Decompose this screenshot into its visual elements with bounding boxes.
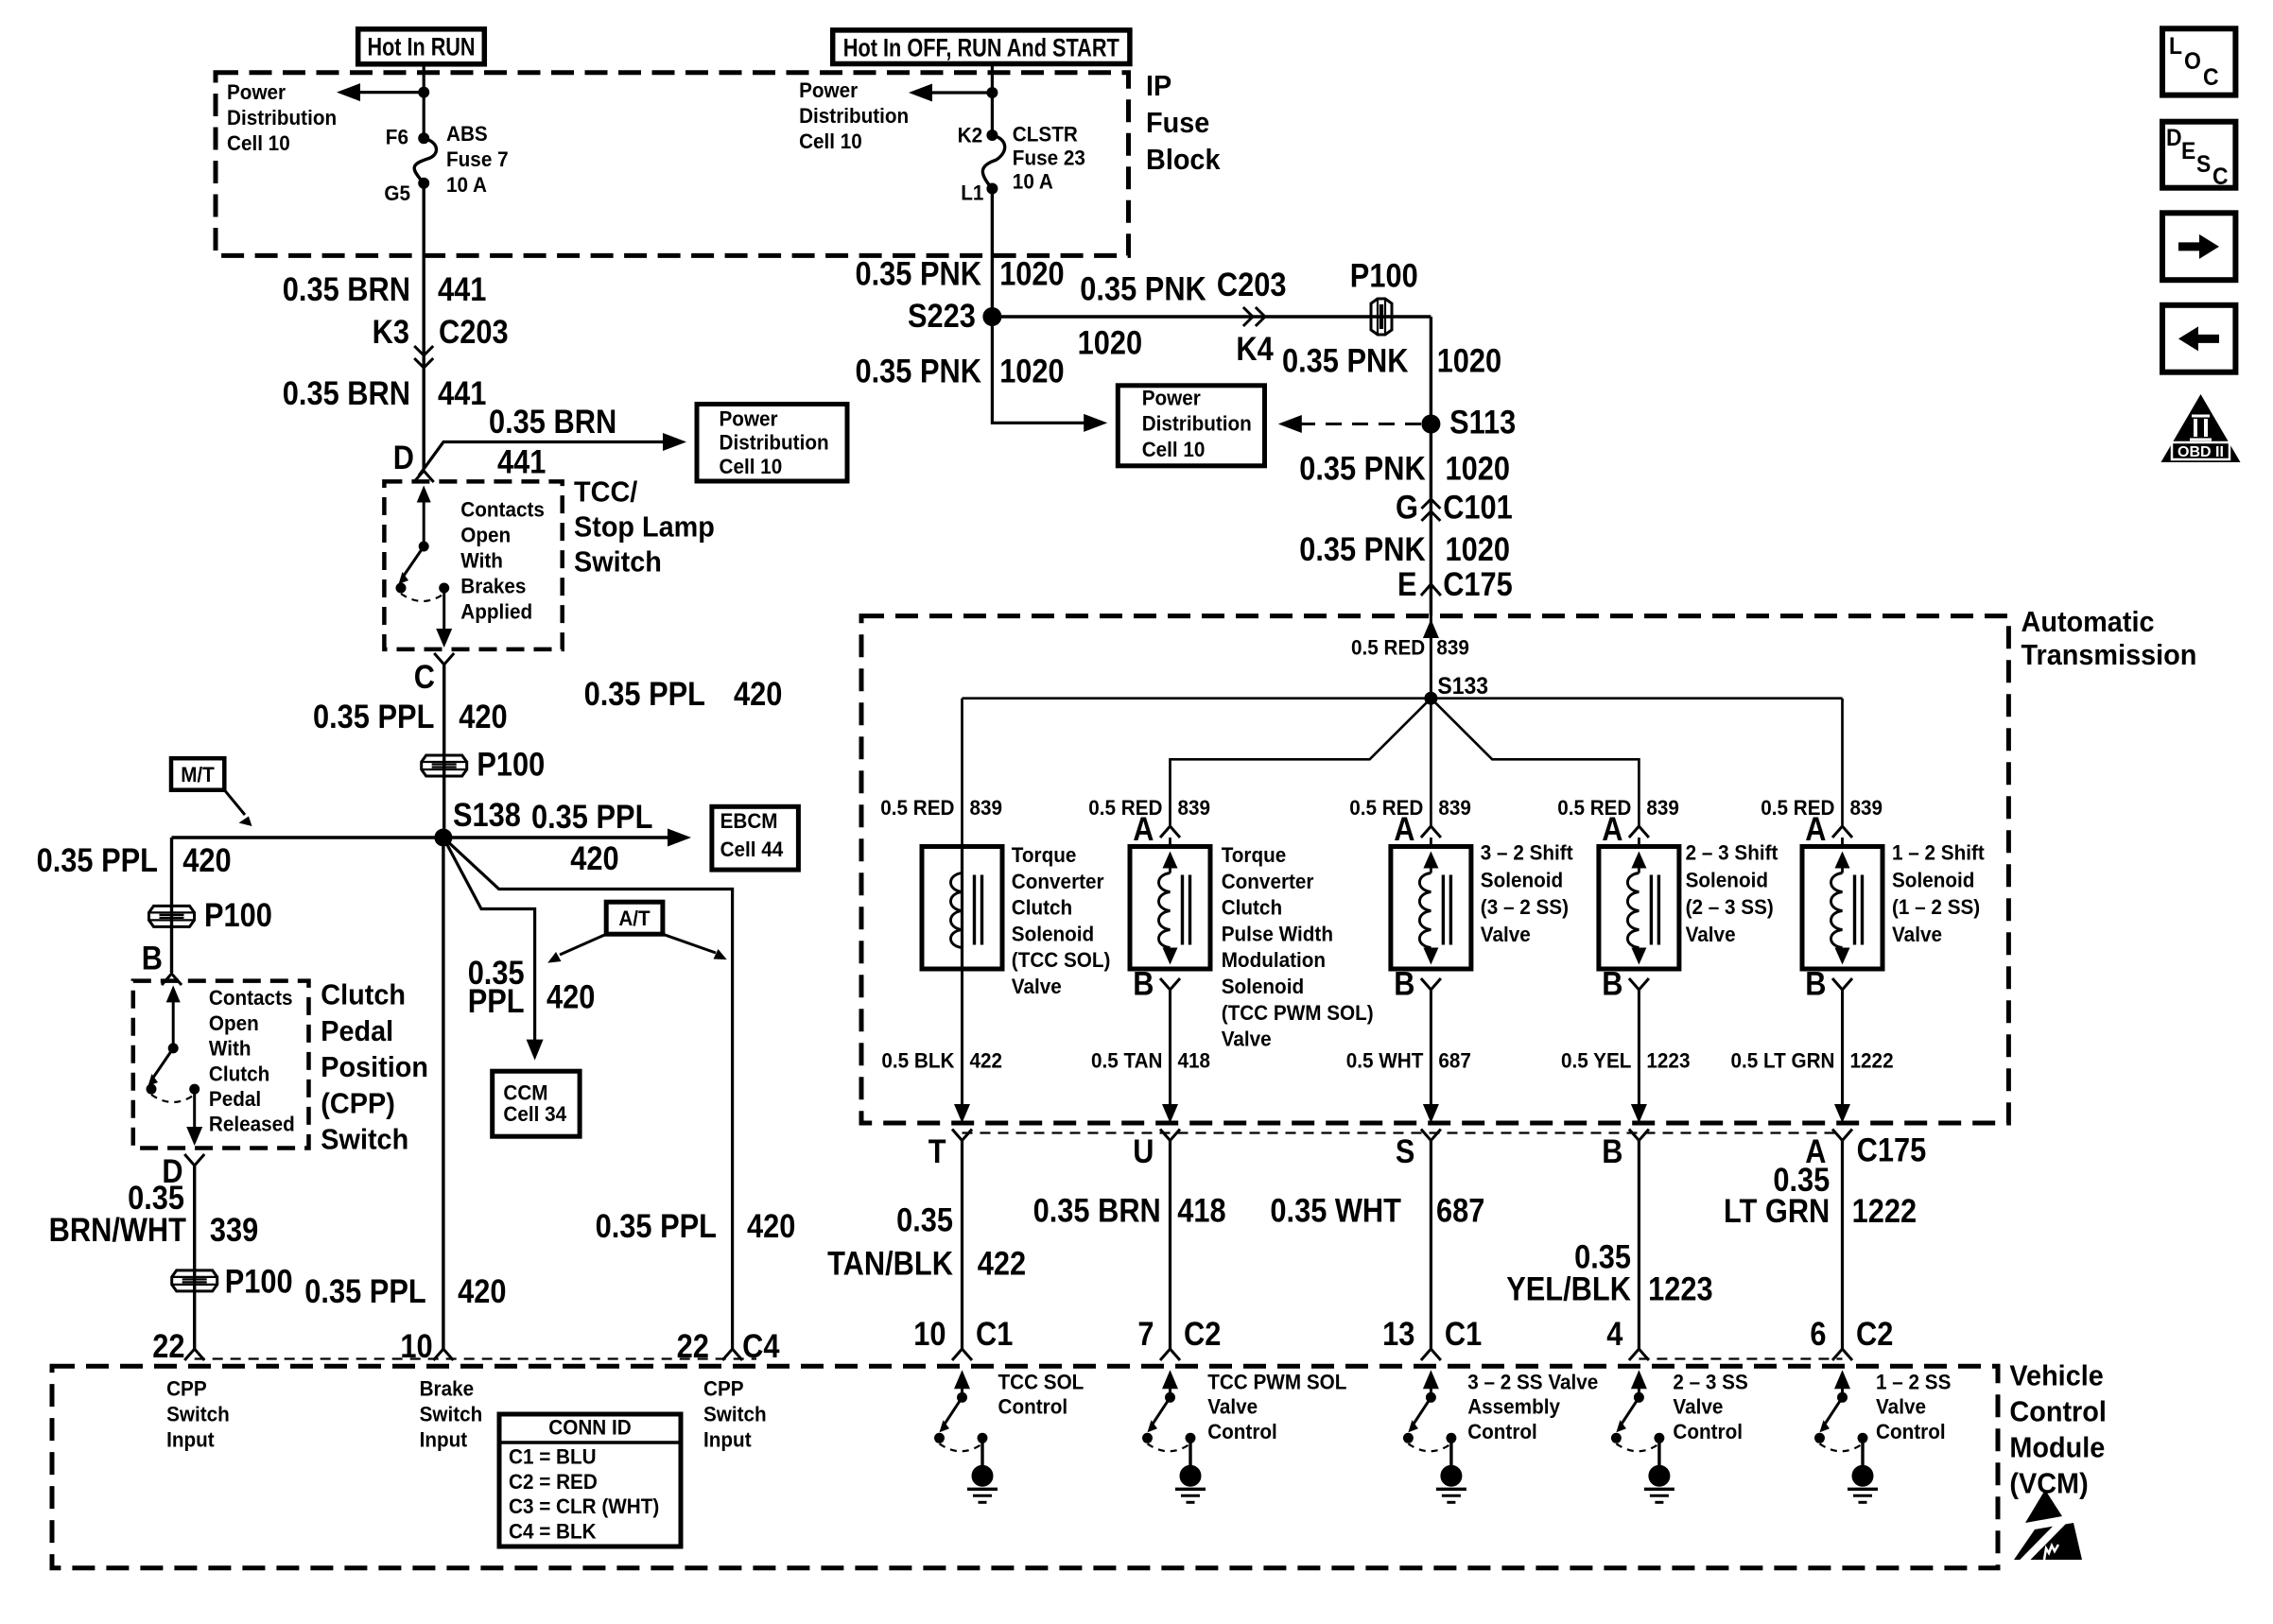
svg-text:TCC PWM SOL: TCC PWM SOL [1207, 1370, 1346, 1393]
VCM driver 3 (3 – 2 SS Valve) [1423, 1370, 1439, 1389]
svg-text:839: 839 [1436, 636, 1469, 660]
svg-text:With: With [209, 1037, 252, 1061]
clutch switch right contact dot [189, 1084, 200, 1095]
svg-text:L: L [2169, 33, 2182, 60]
branch wire S138 to CCM [443, 838, 535, 1040]
TCC switch pivot dot [419, 542, 429, 552]
svg-text:1223: 1223 [1646, 1048, 1690, 1072]
svg-text:1 – 2 SS: 1 – 2 SS [1876, 1370, 1951, 1393]
svg-text:441: 441 [438, 271, 486, 308]
solenoid output wire 2 [1169, 990, 1171, 1106]
bus diagonal to TCC PWM solenoid [1171, 699, 1431, 826]
svg-text:Cell 10: Cell 10 [227, 131, 290, 155]
svg-text:0.5 RED: 0.5 RED [880, 796, 954, 820]
wire CLSTR fuse to S223 [991, 189, 994, 318]
svg-text:(2 – 3 SS): (2 – 3 SS) [1686, 895, 1774, 919]
svg-text:Valve: Valve [1876, 1395, 1926, 1419]
Power Distribution Cell 10 box (solid, left) [697, 405, 847, 482]
svg-text:C: C [414, 659, 435, 696]
clutch switch blade [153, 1048, 173, 1078]
svg-text:Control: Control [1467, 1420, 1537, 1443]
connector fork C below TCC switch [434, 653, 454, 665]
svg-text:2 – 3 Shift: 2 – 3 Shift [1686, 841, 1778, 865]
svg-text:TCC/: TCC/ [574, 475, 638, 509]
svg-text:With: With [460, 548, 503, 572]
wire 0.35 BRN 441 (fuse to D) [423, 183, 425, 469]
svg-text:420: 420 [459, 699, 507, 735]
svg-text:0.5 BLK: 0.5 BLK [881, 1048, 955, 1072]
fork C175 A [1832, 1130, 1852, 1141]
svg-text:0.35 PPL: 0.35 PPL [37, 842, 158, 879]
icon box arrow right [2162, 213, 2235, 280]
svg-text:13: 13 [1382, 1316, 1414, 1353]
svg-text:1 – 2 Shift: 1 – 2 Shift [1892, 841, 1985, 865]
svg-text:839: 839 [1646, 796, 1679, 820]
connector C101 chevrons [1421, 499, 1440, 509]
svg-text:Solenoid: Solenoid [1222, 975, 1304, 998]
connector C203 chevrons (horizontal) [1243, 307, 1253, 326]
svg-text:Clutch: Clutch [1222, 896, 1282, 920]
svg-text:687: 687 [1436, 1192, 1484, 1229]
connector fork D at TCC switch [414, 471, 434, 482]
svg-text:Control: Control [1673, 1420, 1743, 1443]
svg-text:0.35 PPL: 0.35 PPL [304, 1273, 425, 1310]
connector face dashed line C175 [963, 1132, 1843, 1133]
svg-text:839: 839 [1850, 796, 1883, 820]
svg-text:(TCC SOL): (TCC SOL) [1012, 948, 1111, 972]
svg-text:C203: C203 [439, 314, 509, 351]
svg-text:OBD II: OBD II [2178, 444, 2224, 460]
Power Distribution Cell 10 box (solid, right) [1118, 386, 1264, 466]
grommet P100 (BRN/WHT wire) [172, 1270, 217, 1291]
svg-text:A: A [1394, 811, 1414, 848]
svg-text:Input: Input [420, 1427, 468, 1451]
svg-text:Switch: Switch [703, 1402, 767, 1425]
svg-text:PPL: PPL [468, 983, 525, 1020]
svg-text:C2 = RED: C2 = RED [509, 1470, 598, 1494]
grommet P100 (left wire) [149, 906, 195, 926]
svg-text:6: 6 [1810, 1316, 1826, 1353]
svg-text:Distribution: Distribution [799, 104, 909, 128]
svg-text:Power: Power [720, 406, 778, 430]
grommet P100 (horizontal wire) [1371, 299, 1392, 335]
label box "Hot In OFF, RUN And START" [833, 30, 1130, 64]
svg-text:Cell 10: Cell 10 [720, 455, 783, 478]
svg-text:0.35 PNK: 0.35 PNK [856, 354, 982, 390]
svg-text:0.5 TAN: 0.5 TAN [1091, 1048, 1163, 1072]
solenoid 3-2 Shift box [1391, 847, 1471, 970]
solenoid TCC SOL box [922, 847, 1002, 970]
svg-text:Switch: Switch [166, 1402, 230, 1425]
svg-text:G5: G5 [384, 181, 410, 205]
svg-text:O: O [2184, 48, 2201, 75]
svg-text:Fuse 7: Fuse 7 [446, 147, 509, 171]
svg-text:P100: P100 [225, 1263, 293, 1300]
svg-text:B: B [1602, 966, 1622, 1003]
clutch switch dashed arc [151, 1095, 195, 1102]
svg-text:Pedal: Pedal [209, 1087, 261, 1111]
svg-text:2 – 3 SS: 2 – 3 SS [1673, 1370, 1747, 1393]
svg-text:418: 418 [1178, 1048, 1211, 1072]
svg-text:CPP: CPP [166, 1376, 207, 1400]
svg-text:P100: P100 [204, 897, 272, 934]
svg-text:B: B [142, 941, 163, 977]
svg-text:Distribution: Distribution [1142, 412, 1252, 436]
A/T right pointer arrow [663, 934, 716, 953]
fuse ABS Fuse 7 (F6-G5) [418, 132, 429, 144]
brake switch wire S138 to VCM [442, 838, 444, 1349]
svg-text:Released: Released [209, 1113, 295, 1136]
TCC switch blade [404, 546, 424, 576]
svg-text:0.35 BRN: 0.35 BRN [283, 271, 410, 308]
label box "Hot In RUN" [358, 29, 485, 64]
svg-text:10 A: 10 A [1013, 169, 1053, 193]
svg-text:S: S [2196, 151, 2211, 178]
svg-text:(CPP): (CPP) [321, 1086, 395, 1119]
bus drop to 1-2 solenoid [1841, 699, 1844, 826]
branch wire S138 to right CPP switch input [443, 838, 733, 1349]
svg-text:P100: P100 [1350, 257, 1418, 294]
wire: CLSTR fuse feed [991, 64, 994, 136]
svg-text:0.35 BRN: 0.35 BRN [1033, 1192, 1161, 1229]
connector fork E [1421, 584, 1441, 596]
icon box LOC [2162, 28, 2235, 95]
svg-text:339: 339 [210, 1212, 258, 1249]
clutch switch output wire [193, 1093, 196, 1128]
svg-text:Clutch: Clutch [1012, 896, 1072, 920]
svg-text:1020: 1020 [1078, 325, 1143, 362]
svg-text:0.5 YEL: 0.5 YEL [1561, 1048, 1632, 1072]
svg-text:Position: Position [321, 1050, 428, 1083]
svg-text:(3 – 2 SS): (3 – 2 SS) [1481, 895, 1569, 919]
solenoid output wire 4 [1638, 990, 1640, 1106]
svg-text:IP: IP [1146, 69, 1171, 102]
svg-text:(TCC PWM SOL): (TCC PWM SOL) [1222, 1001, 1374, 1025]
wire S138 to EBCM arrow [443, 836, 677, 838]
svg-text:4: 4 [1606, 1316, 1623, 1353]
svg-text:S133: S133 [1437, 673, 1488, 700]
wire S223 branch down to Power Distribution [992, 317, 1097, 423]
arrow to Power Distribution (left fuse) [346, 91, 424, 94]
svg-text:Block: Block [1146, 143, 1221, 176]
svg-text:Module: Module [2009, 1431, 2105, 1464]
svg-text:S138: S138 [453, 797, 521, 834]
svg-text:Brake: Brake [420, 1376, 475, 1400]
svg-text:1222: 1222 [1850, 1048, 1894, 1072]
EBCM Cell 44 box [712, 806, 799, 870]
svg-text:S113: S113 [1449, 405, 1516, 441]
svg-text:418: 418 [1177, 1192, 1225, 1229]
svg-text:0.35 BRN: 0.35 BRN [283, 375, 410, 412]
icon box DESC [2162, 122, 2235, 188]
svg-text:1223: 1223 [1648, 1271, 1713, 1308]
svg-text:Pulse Width: Pulse Width [1222, 922, 1333, 945]
solenoid output wire 3 [1430, 990, 1432, 1106]
svg-text:Open: Open [460, 523, 511, 546]
svg-text:P100: P100 [477, 746, 545, 783]
wire: fuse ABS feed from Hot In RUN [423, 64, 425, 138]
svg-text:C175: C175 [1443, 566, 1513, 603]
svg-text:C3 = CLR (WHT): C3 = CLR (WHT) [509, 1494, 659, 1518]
Clutch Pedal Position switch dashed box [133, 981, 309, 1149]
svg-text:1020: 1020 [1437, 343, 1502, 380]
svg-text:K4: K4 [1236, 331, 1274, 368]
TCC switch left contact dot [396, 583, 407, 594]
svg-text:C203: C203 [1217, 267, 1287, 303]
TCC/Stop Lamp Switch dashed box [384, 481, 562, 649]
M/T label box [171, 758, 224, 790]
svg-text:7: 7 [1137, 1316, 1154, 1353]
clutch switch entry arrow [166, 985, 181, 1002]
fork VCM terminal 6 [1832, 1349, 1852, 1360]
M/T pointer arrow [224, 790, 245, 815]
TCC switch dashed arc [401, 594, 444, 601]
svg-text:Brakes: Brakes [460, 574, 526, 597]
svg-text:22: 22 [152, 1328, 184, 1365]
svg-text:S223: S223 [908, 298, 976, 335]
svg-text:ABS: ABS [446, 122, 488, 146]
svg-text:10 A: 10 A [446, 173, 487, 197]
svg-text:A: A [1133, 811, 1154, 848]
svg-text:420: 420 [458, 1273, 506, 1310]
svg-text:1222: 1222 [1852, 1193, 1917, 1230]
svg-text:Vehicle: Vehicle [2009, 1359, 2103, 1392]
wire P100 corner down to S113 and E [1430, 317, 1432, 616]
svg-text:(1 – 2 SS): (1 – 2 SS) [1892, 895, 1980, 919]
M/T horizontal wire [172, 836, 443, 838]
red feed bus horizontal [963, 697, 1843, 700]
svg-text:C: C [2203, 64, 2219, 91]
svg-text:Hot In RUN: Hot In RUN [368, 33, 476, 61]
svg-text:0.35 PPL: 0.35 PPL [313, 699, 434, 735]
svg-text:Valve: Valve [1686, 923, 1736, 946]
svg-text:1020: 1020 [1446, 451, 1511, 488]
svg-text:0.35 PNK: 0.35 PNK [856, 256, 982, 293]
svg-text:C1 = BLU: C1 = BLU [509, 1444, 597, 1468]
svg-text:E: E [1397, 566, 1417, 603]
fork VCM terminal 4 [1629, 1349, 1649, 1360]
fork VCM terminal 7 [1160, 1349, 1180, 1360]
junction dot CLSTR feed [986, 87, 998, 98]
svg-text:Transmission: Transmission [2021, 638, 2197, 671]
svg-text:B: B [1394, 966, 1414, 1003]
svg-text:0.5 RED: 0.5 RED [1351, 636, 1425, 660]
svg-text:YEL/BLK: YEL/BLK [1506, 1271, 1631, 1308]
svg-text:C175: C175 [1857, 1132, 1927, 1169]
svg-text:Hot In OFF, RUN And START: Hot In OFF, RUN And START [843, 34, 1119, 62]
svg-text:S: S [1396, 1133, 1415, 1170]
svg-text:Power: Power [227, 80, 286, 104]
svg-text:C101: C101 [1443, 490, 1513, 527]
svg-text:0.35 PPL: 0.35 PPL [584, 676, 705, 713]
svg-text:422: 422 [970, 1048, 1003, 1072]
fuse CLSTR Fuse 23 (K2-L1) [986, 130, 998, 141]
Vehicle Control Module dashed box [52, 1366, 1998, 1567]
solenoid 2-3 Shift box [1599, 847, 1679, 970]
svg-text:CONN ID: CONN ID [548, 1416, 631, 1440]
svg-text:F6: F6 [386, 126, 408, 149]
svg-text:Distribution: Distribution [227, 106, 337, 130]
bus diagonal to 2-3 solenoid [1431, 699, 1639, 826]
connector face dashed line (4 to 6) [1639, 1357, 1842, 1359]
fork C175 B [1629, 1130, 1649, 1141]
svg-text:420: 420 [747, 1208, 795, 1245]
svg-text:Solenoid: Solenoid [1686, 868, 1768, 891]
connector face dashed line (left) [195, 1357, 756, 1359]
svg-text:Solenoid: Solenoid [1012, 922, 1094, 945]
fork VCM terminal 13 [1421, 1349, 1441, 1360]
svg-text:Solenoid: Solenoid [1481, 868, 1563, 891]
svg-text:Distribution: Distribution [720, 431, 829, 455]
svg-text:Control: Control [1207, 1420, 1277, 1443]
svg-text:A: A [1805, 811, 1826, 848]
fork VCM terminal 10 [952, 1349, 972, 1360]
svg-text:1020: 1020 [1446, 531, 1511, 568]
svg-text:Converter: Converter [1012, 870, 1104, 893]
VCM driver 1 (TCC SOL) [954, 1370, 970, 1389]
svg-text:0.35 PNK: 0.35 PNK [1299, 451, 1426, 488]
svg-text:420: 420 [182, 842, 231, 879]
grommet P100 on PPL wire [422, 755, 467, 776]
fork terminal 22 [184, 1349, 204, 1360]
svg-text:B: B [1602, 1133, 1622, 1170]
svg-text:(VCM): (VCM) [2009, 1467, 2088, 1500]
svg-text:Solenoid: Solenoid [1892, 868, 1974, 891]
svg-text:T: T [928, 1133, 946, 1170]
svg-text:B: B [1133, 966, 1154, 1003]
splice S138 dot [434, 829, 452, 847]
svg-text:3 – 2 SS Valve: 3 – 2 SS Valve [1467, 1370, 1598, 1393]
connector fork D below clutch switch [184, 1154, 204, 1166]
svg-text:D: D [393, 440, 414, 476]
svg-text:D: D [2166, 125, 2182, 151]
ESD warning symbol [2025, 1490, 2062, 1523]
svg-text:687: 687 [1438, 1048, 1471, 1072]
svg-text:C4 = BLK: C4 = BLK [509, 1520, 597, 1544]
wires C175 to VCM [961, 1141, 963, 1350]
svg-text:Stop Lamp: Stop Lamp [574, 510, 715, 544]
svg-text:Assembly: Assembly [1467, 1395, 1560, 1419]
svg-text:0.35 BRN: 0.35 BRN [489, 404, 616, 441]
branch wire D to Power Distribution cell 10 [419, 442, 677, 476]
svg-text:Torque: Torque [1012, 843, 1077, 867]
svg-text:Valve: Valve [1481, 923, 1531, 946]
svg-text:0.35 PPL: 0.35 PPL [596, 1208, 717, 1245]
svg-text:Switch: Switch [574, 545, 662, 579]
svg-text:Modulation: Modulation [1222, 948, 1326, 972]
svg-text:Converter: Converter [1222, 870, 1314, 893]
svg-text:TCC SOL: TCC SOL [998, 1370, 1084, 1393]
svg-text:422: 422 [978, 1246, 1026, 1283]
svg-text:Cell 44: Cell 44 [720, 838, 784, 861]
wire E to S133 (0.5 RED 839) [1430, 616, 1432, 699]
junction dot on ABS feed [418, 87, 429, 98]
svg-text:Control: Control [2009, 1395, 2107, 1428]
svg-text:Switch: Switch [420, 1402, 483, 1425]
svg-text:C2: C2 [1856, 1316, 1893, 1353]
svg-text:LT GRN: LT GRN [1724, 1193, 1830, 1230]
svg-text:0.35 WHT: 0.35 WHT [1270, 1192, 1401, 1229]
svg-text:CCM: CCM [503, 1081, 547, 1105]
wire D to VCM terminal 22 [193, 1166, 196, 1349]
svg-text:Cell 34: Cell 34 [503, 1102, 566, 1126]
VCM driver 4 (2 – 3 SS) [1631, 1370, 1647, 1389]
svg-text:0.5 LT GRN: 0.5 LT GRN [1731, 1048, 1835, 1072]
solenoid output wire 1 [961, 969, 963, 1106]
svg-text:B: B [1805, 966, 1826, 1003]
svg-text:0.35 PNK: 0.35 PNK [1282, 343, 1409, 380]
fork C175 U [1160, 1130, 1180, 1141]
svg-text:839: 839 [1438, 796, 1471, 820]
svg-text:10: 10 [913, 1316, 946, 1353]
wire S223 to P100 (horizontal) [992, 315, 1431, 318]
TCC switch output wire [442, 592, 445, 630]
svg-text:Valve: Valve [1012, 975, 1062, 998]
TCC switch right contact dot [439, 583, 449, 594]
svg-text:M/T: M/T [181, 763, 215, 786]
svg-text:U: U [1133, 1133, 1154, 1170]
arrow into Automatic Transmission [1423, 619, 1439, 638]
svg-text:Contacts: Contacts [460, 497, 545, 521]
svg-text:Input: Input [166, 1427, 215, 1451]
VCM driver 2 (TCC PWM SOL) [1162, 1370, 1178, 1389]
left vertical wire (M/T circuit) down to B [170, 838, 173, 973]
bus drop to 3-2 solenoid [1430, 699, 1432, 826]
svg-text:420: 420 [547, 979, 595, 1016]
svg-text:L1: L1 [961, 181, 983, 204]
svg-text:C1: C1 [976, 1316, 1013, 1353]
CCM Cell 34 box [493, 1071, 580, 1136]
svg-text:BRN/WHT: BRN/WHT [49, 1212, 186, 1249]
svg-text:K3: K3 [373, 314, 409, 351]
svg-text:Valve: Valve [1222, 1028, 1272, 1051]
svg-text:Control: Control [998, 1395, 1068, 1419]
svg-text:Power: Power [799, 78, 858, 102]
svg-text:420: 420 [570, 840, 618, 877]
svg-text:Pedal: Pedal [321, 1014, 393, 1047]
svg-text:C1: C1 [1445, 1316, 1482, 1353]
clutch switch pivot dot [168, 1043, 179, 1053]
svg-text:441: 441 [497, 444, 546, 481]
svg-text:0.35: 0.35 [896, 1202, 953, 1239]
svg-text:Valve: Valve [1207, 1395, 1258, 1419]
svg-text:E: E [2181, 138, 2195, 164]
svg-text:0.35 PPL: 0.35 PPL [531, 799, 652, 836]
svg-text:Switch: Switch [321, 1123, 408, 1156]
arrow to Power Distribution (right fuse) [918, 91, 992, 94]
svg-text:Valve: Valve [1673, 1395, 1723, 1419]
splice S133 dot [1424, 692, 1437, 705]
svg-text:CLSTR: CLSTR [1013, 122, 1078, 146]
TCC switch entry arrow [417, 486, 431, 503]
svg-text:Cell 10: Cell 10 [799, 130, 862, 153]
svg-text:3 – 2 Shift: 3 – 2 Shift [1481, 841, 1573, 865]
svg-text:TAN/BLK: TAN/BLK [827, 1246, 953, 1283]
svg-text:K2: K2 [958, 124, 983, 147]
splice S113 dot [1421, 415, 1440, 434]
svg-text:CPP: CPP [703, 1376, 744, 1400]
fork C175 S [1421, 1130, 1441, 1141]
A/T label box [606, 902, 663, 934]
svg-text:Cell 10: Cell 10 [1142, 438, 1206, 461]
connector fork B at clutch switch [162, 974, 182, 985]
splice S223 dot [982, 307, 1001, 326]
svg-text:Power: Power [1142, 386, 1201, 409]
connector C203 inline chevrons [414, 346, 433, 355]
bus drop to TCC solenoid [961, 699, 963, 847]
svg-text:G: G [1396, 490, 1418, 527]
svg-text:Open: Open [209, 1011, 259, 1035]
